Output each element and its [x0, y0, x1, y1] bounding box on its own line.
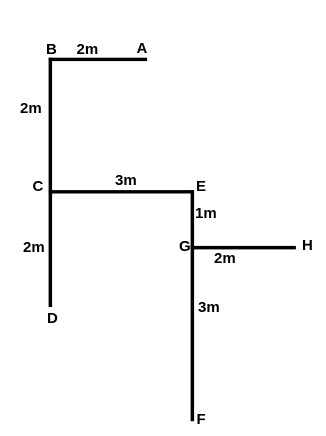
value label 1m (segment E-G) [195, 206, 217, 221]
value label 2m (segment G-H) [214, 251, 236, 266]
value label 2m (segment B-C) [20, 101, 42, 116]
node F [197, 412, 206, 427]
wire B-C-D (left vertical segment) [49, 58, 53, 307]
wire G-H (lower horizontal segment) [191, 246, 296, 250]
node D [47, 311, 58, 326]
wire B-A (top horizontal segment) [49, 58, 148, 61]
wire E-G-F (right vertical segment) [191, 190, 195, 421]
node C [33, 179, 44, 194]
node A [137, 41, 148, 56]
value label 2m (segment C-D) [23, 240, 45, 255]
value label 3m (segment G-F) [198, 300, 220, 315]
node G [179, 239, 191, 254]
value label 3m (segment C-E) [115, 173, 137, 188]
node H [302, 238, 313, 253]
node B [46, 42, 57, 57]
node E [196, 179, 206, 194]
wire C-E (middle horizontal segment) [49, 190, 194, 193]
value label 2m (segment B-A) [77, 42, 99, 57]
